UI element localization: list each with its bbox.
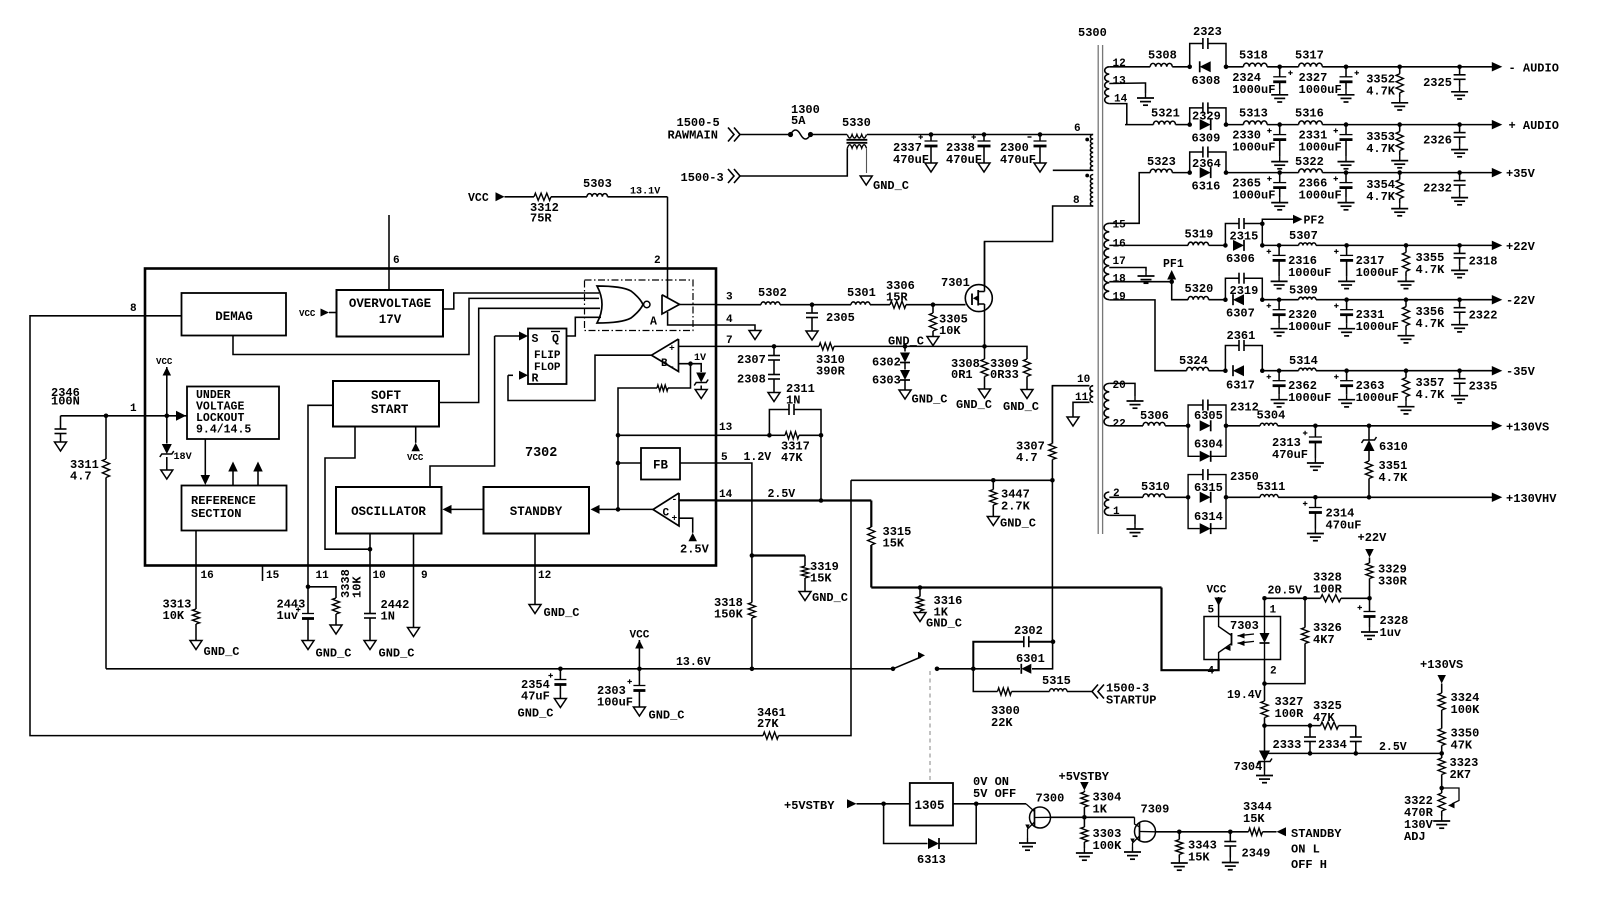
resistor 3357 4.7K <box>1398 371 1446 414</box>
earth 3322 <box>1433 816 1450 828</box>
winding 15-19 <box>1104 223 1109 299</box>
svg-text:1000uF: 1000uF <box>1299 83 1342 97</box>
capacitor 2362 1000uF <box>1267 371 1332 407</box>
wire 5314 out <box>1316 368 1493 373</box>
svg-text:FLIP: FLIP <box>534 350 561 362</box>
wire to 5313 <box>1226 124 1243 126</box>
svg-text:1uv: 1uv <box>277 609 299 623</box>
wire 6301 branch <box>973 668 1020 670</box>
capacitor 2331 1000uF <box>1299 125 1355 169</box>
wire pin14 out <box>716 498 871 503</box>
inductor 5303 <box>583 177 612 197</box>
inductor 5311 <box>1257 480 1286 497</box>
winding 12-13-14 <box>1105 67 1110 104</box>
pin 19 label sec <box>1113 292 1126 304</box>
svg-text:47uF: 47uF <box>521 690 550 704</box>
svg-text:1000uF: 1000uF <box>1356 266 1399 280</box>
svg-text:7300: 7300 <box>1036 792 1065 806</box>
svg-text:2K7: 2K7 <box>1450 768 1472 782</box>
svg-text:15R: 15R <box>886 291 908 305</box>
svg-text:1000uF: 1000uF <box>1232 141 1275 155</box>
diode 6315 <box>1194 481 1223 503</box>
resistor 3307 4.7 <box>1016 386 1056 481</box>
inductor 5321 <box>1151 107 1180 125</box>
wire aux bottom <box>1073 402 1090 417</box>
svg-text:20.5V: 20.5V <box>1268 585 1303 598</box>
svg-text:-35V: -35V <box>1506 365 1536 379</box>
svg-text:PF2: PF2 <box>1304 215 1325 228</box>
wire mains rail <box>867 134 1093 136</box>
svg-text:GND_C: GND_C <box>649 709 685 723</box>
svg-text:5320: 5320 <box>1185 282 1214 296</box>
svg-text:100R: 100R <box>1313 583 1343 597</box>
ground GND_C 3305 <box>888 335 939 349</box>
capacitor 2308 <box>737 360 780 393</box>
capacitor 2361 <box>1225 329 1262 371</box>
feedback resistor B <box>618 364 691 510</box>
wire aux top <box>1052 386 1089 444</box>
wire STANDBY to OSCILLATOR <box>443 505 484 514</box>
wire pin16 rail <box>1109 244 1188 246</box>
resistor 3324 100K <box>1438 691 1480 729</box>
capacitor 2349 <box>1224 832 1270 861</box>
svg-text:+5VSTBY: +5VSTBY <box>784 799 835 813</box>
rail PF2 <box>1293 215 1324 228</box>
resistor 3329 330R <box>1366 563 1408 599</box>
svg-text:5306: 5306 <box>1140 409 1169 423</box>
capacitor 2327 1000uF <box>1299 67 1360 102</box>
svg-text:1N: 1N <box>381 610 395 624</box>
wire pin9 <box>413 534 415 628</box>
ground GND_C 6303 <box>899 390 948 407</box>
svg-text:27K: 27K <box>757 717 779 731</box>
diode 6305 <box>1194 409 1223 431</box>
svg-text:1000uF: 1000uF <box>1356 320 1399 334</box>
resistor 3309 0R33 <box>990 357 1031 390</box>
VCC clamp symbol <box>156 356 173 444</box>
rail -22V <box>1492 294 1536 308</box>
wire 3300 to 5315 <box>1012 691 1050 693</box>
capacitor 2324 1000uF <box>1232 67 1293 102</box>
ground GND_C pin12 <box>529 605 580 621</box>
svg-text:2312: 2312 <box>1230 401 1259 415</box>
capacitor 2319 <box>1225 273 1262 300</box>
rail +130VS <box>1492 420 1549 434</box>
inductor 5323 <box>1147 155 1176 173</box>
node 2300 <box>1038 132 1043 137</box>
ground arrow pin9 <box>408 628 420 637</box>
svg-text:6307: 6307 <box>1226 307 1255 321</box>
svg-text:R: R <box>532 373 539 386</box>
capacitor 2322 <box>1451 300 1497 332</box>
svg-text:47K: 47K <box>1313 711 1335 725</box>
wire 5315 to startup conn <box>1067 691 1092 693</box>
wire 1305 out <box>953 802 1026 807</box>
capacitor 2307 <box>737 346 780 367</box>
svg-text:DEMAG: DEMAG <box>215 310 252 324</box>
input +5VSTBY <box>784 799 857 813</box>
wire choke to GND_C <box>866 148 868 173</box>
svg-text:7309: 7309 <box>1141 803 1170 817</box>
inductor 5316 <box>1295 107 1324 125</box>
svg-text:5323: 5323 <box>1147 155 1176 169</box>
svg-text:100N: 100N <box>51 395 80 409</box>
resistor 3355 4.7K <box>1398 245 1446 288</box>
svg-text:12: 12 <box>538 570 551 582</box>
svg-text:OSCILLATOR: OSCILLATOR <box>351 505 426 519</box>
winding 20-22 <box>1104 383 1109 425</box>
ground below 2338 <box>978 163 990 172</box>
potentiometer 3322 470R <box>1404 788 1459 844</box>
ground GND_C 2443 <box>302 641 352 661</box>
wire 13.6V line <box>106 656 893 669</box>
svg-text:FB: FB <box>653 459 668 473</box>
NOR gate <box>597 286 650 323</box>
block FB <box>641 448 680 480</box>
svg-text:1V: 1V <box>694 353 707 364</box>
svg-text:1: 1 <box>1270 605 1277 617</box>
diode 6301 <box>1016 652 1045 674</box>
wire pin4 <box>716 325 755 331</box>
wire pin13 to earth <box>1109 83 1145 93</box>
svg-text:1: 1 <box>130 403 137 415</box>
svg-text:5319: 5319 <box>1185 228 1214 242</box>
block REFERENCE SECTION <box>182 486 287 531</box>
transformer 5300 label <box>1078 26 1107 40</box>
svg-text:13: 13 <box>1113 76 1127 88</box>
transistor 7309 <box>1130 803 1169 848</box>
svg-text:VCC: VCC <box>468 192 489 205</box>
pin 5 label <box>721 451 771 464</box>
inductor 5318 <box>1239 49 1268 67</box>
wire primary tap <box>1053 169 1093 171</box>
op-amp C <box>653 493 679 526</box>
pin 10 label aux <box>1077 374 1090 386</box>
capacitor 2334 <box>1318 726 1362 756</box>
filter choke 5330 <box>842 116 871 148</box>
wire MOSFET source <box>984 304 986 346</box>
svg-text:5: 5 <box>721 452 728 464</box>
svg-text:1K: 1K <box>1093 803 1108 817</box>
svg-text:14: 14 <box>719 489 733 501</box>
svg-text:- AUDIO: - AUDIO <box>1509 61 1559 75</box>
wire 3306 to gate <box>906 302 966 307</box>
wire 3310 to source <box>834 344 987 349</box>
svg-text:5300: 5300 <box>1078 26 1107 40</box>
earth 7309 <box>1124 847 1141 859</box>
ground GND_C 3308 <box>956 389 992 412</box>
wire fuse to 5330 <box>811 134 848 136</box>
resistor 3308 0R1 <box>951 346 988 389</box>
wire to 5307 <box>1262 243 1298 248</box>
capacitor 2318 <box>1451 245 1497 277</box>
wire 5318 to 5317 <box>1267 65 1299 70</box>
svg-text:2349: 2349 <box>1242 847 1271 861</box>
pin 1 label <box>130 403 137 415</box>
transistor 7300 <box>1025 792 1064 839</box>
svg-text:1000uF: 1000uF <box>1232 83 1275 97</box>
resistor 3313 10K <box>163 598 200 641</box>
wire to 2365 <box>1226 170 1299 175</box>
wire pin13 inside <box>618 434 716 436</box>
svg-text:Q: Q <box>552 333 559 346</box>
ground GND_C 2303 <box>633 707 684 723</box>
svg-text:4.7K: 4.7K <box>1416 317 1446 331</box>
earth pin13 <box>1137 93 1154 105</box>
svg-text:470uF: 470uF <box>1272 448 1308 462</box>
svg-text:6305: 6305 <box>1194 409 1223 423</box>
inductor 5320 <box>1185 282 1214 300</box>
wire DEMAG out to NOR <box>233 298 599 354</box>
wire 5316 out <box>1322 122 1492 127</box>
pin 22 label <box>1113 419 1126 431</box>
svg-text:1000uF: 1000uF <box>1299 141 1342 155</box>
capacitor 2315 <box>1225 218 1262 245</box>
svg-text:6309: 6309 <box>1192 132 1221 146</box>
diode 6313 bypass <box>884 804 977 867</box>
wire 5317 out <box>1322 65 1492 70</box>
resistor 3310 390R <box>816 343 846 379</box>
svg-text:5308: 5308 <box>1148 49 1177 63</box>
wire 3312 to 5303 <box>551 196 587 198</box>
dashed box gate A <box>585 280 694 331</box>
svg-text:13.1V: 13.1V <box>630 187 661 198</box>
wire 5308 out <box>1172 65 1228 70</box>
svg-text:4: 4 <box>726 314 733 326</box>
svg-text:GND_C: GND_C <box>912 393 948 407</box>
svg-text:15: 15 <box>266 570 280 582</box>
wire B plus pin7 <box>679 345 717 347</box>
resistor 3356 4.7K <box>1398 300 1446 343</box>
svg-text:5309: 5309 <box>1289 284 1318 298</box>
inductor 5304 <box>1257 409 1286 426</box>
wire SOFT START out to NOR <box>439 308 600 402</box>
transformer core <box>1098 45 1102 534</box>
svg-text:330R: 330R <box>1378 575 1408 589</box>
svg-text:B: B <box>661 358 668 370</box>
svg-text:SOFT: SOFT <box>371 389 401 403</box>
wire VCC at SOFT START <box>407 427 424 464</box>
wire to 1305 <box>857 802 910 807</box>
svg-text:+ AUDIO: + AUDIO <box>1509 119 1559 133</box>
svg-text:1000uF: 1000uF <box>1288 266 1331 280</box>
svg-text:10K: 10K <box>939 324 961 338</box>
resistor 3319 15K <box>801 556 838 592</box>
svg-text:5316: 5316 <box>1295 107 1324 121</box>
svg-text:STANDBY: STANDBY <box>1291 827 1342 841</box>
node 2354 <box>558 667 563 672</box>
diode 6317 <box>1226 365 1255 392</box>
svg-text:+: + <box>672 513 678 524</box>
capacitor 2303 100uF <box>597 669 645 710</box>
svg-text:47K: 47K <box>1451 739 1473 753</box>
svg-text:13.6V: 13.6V <box>676 656 711 669</box>
wire switch to startup node <box>937 667 976 672</box>
capacitor 2350 <box>1188 469 1259 497</box>
rail - AUDIO <box>1492 61 1559 75</box>
resistor 3303 100K <box>1081 817 1122 853</box>
capacitor 2320 1000uF <box>1267 300 1332 336</box>
wire R input of FF <box>508 355 652 400</box>
svg-text:START: START <box>371 403 409 417</box>
ground below 2300 <box>1034 163 1046 172</box>
resistor 3461 27K <box>757 706 786 739</box>
pin 14 label <box>719 488 795 501</box>
pin 15 label <box>266 570 280 582</box>
resistor 3318 150K <box>714 556 756 672</box>
svg-text:100K: 100K <box>1451 703 1481 717</box>
wire pin8 DEMAG net <box>30 316 763 736</box>
capacitor 2330 1000uF <box>1232 125 1288 169</box>
pin 3 label <box>726 292 733 304</box>
svg-text:7302: 7302 <box>525 446 557 461</box>
wire 5313 to 5316 <box>1267 122 1299 127</box>
wire pin12 <box>534 534 536 605</box>
ground GND_C pin16 <box>190 641 240 660</box>
svg-text:2323: 2323 <box>1193 25 1222 39</box>
optocoupler VCC <box>1207 585 1227 617</box>
wire B minus node <box>679 361 702 372</box>
earth 3303 <box>1076 848 1093 860</box>
svg-text:1: 1 <box>1113 506 1120 518</box>
switch contact <box>891 652 940 671</box>
wire C plus 2.5V <box>679 518 693 533</box>
svg-text:8: 8 <box>1073 195 1080 207</box>
capacitor 2317 1000uF <box>1334 245 1399 288</box>
svg-text:SECTION: SECTION <box>191 507 241 521</box>
resistor 3306 15R <box>886 279 915 308</box>
resistor 3305 10K <box>929 305 967 338</box>
wire FB box <box>618 462 716 464</box>
pin 7 label <box>726 335 733 347</box>
svg-text:10: 10 <box>1077 374 1090 386</box>
zener 1V at B <box>694 353 708 386</box>
svg-text:VCC: VCC <box>156 356 173 367</box>
capacitor 2443 1uv <box>277 587 315 641</box>
svg-text:0R1: 0R1 <box>951 368 973 382</box>
svg-text:4.7K: 4.7K <box>1366 142 1396 156</box>
rail +130VS source <box>1420 658 1463 693</box>
capacitor 2364 <box>1190 147 1226 173</box>
wire pin3 <box>716 304 761 306</box>
wire C out to STANDBY <box>591 505 654 514</box>
ground GND_C 3319 <box>799 591 848 605</box>
svg-text:6306: 6306 <box>1226 252 1255 266</box>
svg-text:S: S <box>532 333 539 346</box>
resistor 3311 4.7 <box>70 416 110 669</box>
svg-text:6: 6 <box>393 255 400 267</box>
wire to 5318 <box>1226 66 1243 68</box>
wire OVERVOLTAGE out to NOR <box>443 293 599 309</box>
wire 2.5V line <box>1265 741 1442 754</box>
wire startup <box>973 669 997 692</box>
ground below 2337 <box>925 163 937 172</box>
wire 5301-3306 <box>870 304 890 306</box>
wire SOFT START loop <box>325 427 370 550</box>
svg-text:100R: 100R <box>1275 707 1305 721</box>
svg-text:2350: 2350 <box>1230 470 1259 484</box>
inductor 5314 <box>1289 354 1318 371</box>
wire 7309 out <box>1156 830 1249 835</box>
inductor 5308 <box>1148 49 1177 67</box>
pin 11 label aux <box>1075 392 1089 404</box>
wire C minus pin14 <box>679 499 716 501</box>
svg-text:6310: 6310 <box>1379 440 1408 454</box>
svg-text:6302: 6302 <box>872 356 901 370</box>
inductor 5309 <box>1289 284 1318 300</box>
node VCC 2303 <box>637 667 642 672</box>
svg-text:6314: 6314 <box>1194 510 1223 524</box>
svg-text:6: 6 <box>1074 123 1081 135</box>
node 3317-2311 <box>819 433 824 438</box>
inductor 5306 <box>1140 409 1169 426</box>
inductor 5307 <box>1289 229 1318 245</box>
wire 5310 out <box>1165 495 1228 500</box>
winding 2-1 <box>1104 492 1109 515</box>
svg-text:1000uF: 1000uF <box>1288 320 1331 334</box>
capacitor 2314 470uF <box>1303 497 1362 540</box>
svg-text:10: 10 <box>373 570 386 582</box>
earth 2349 <box>1222 858 1239 870</box>
capacitor 2328 1uv <box>1358 598 1409 640</box>
primary winding 6-8 <box>1085 135 1093 207</box>
svg-text:VCC: VCC <box>1207 585 1227 597</box>
ground GND_C 3316 <box>914 613 962 631</box>
VCC source 13.1V line <box>468 192 534 205</box>
resistor 3352 4.7K <box>1366 67 1408 110</box>
label 20.5V <box>1268 585 1303 598</box>
wire pin13 out <box>716 433 772 438</box>
wire pin15 rail riser <box>1109 173 1150 224</box>
relay 1305 <box>910 783 953 826</box>
VCC symbol at OVERVOLTAGE <box>299 308 337 319</box>
input 1500-5 RAWMAIN <box>668 116 741 143</box>
resistor 3317 47K <box>769 432 821 465</box>
capacitor 2232 <box>1423 173 1468 205</box>
wire to 5309 <box>1262 297 1298 302</box>
inductor 5302 <box>758 286 787 305</box>
ground arrow 3338 <box>330 625 342 634</box>
svg-text:GND_C: GND_C <box>1003 400 1039 414</box>
svg-text:C: C <box>663 508 670 520</box>
svg-text:100uF: 100uF <box>597 696 633 710</box>
svg-text:GND_C: GND_C <box>316 647 352 661</box>
IC 7302 outline <box>145 269 716 566</box>
resistor 3304 1K <box>1081 791 1122 818</box>
capacitor 2337 470uF <box>893 135 938 168</box>
svg-text:2333: 2333 <box>1273 738 1302 752</box>
earth 3343 <box>1171 858 1188 870</box>
svg-text:6304: 6304 <box>1194 438 1223 452</box>
capacitor 2442 1N <box>364 598 409 641</box>
block UNDER VOLTAGE LOCKOUT <box>187 387 279 440</box>
dashed link to relay 1305 <box>929 671 931 782</box>
resistor 3351 4.7K <box>1365 451 1408 497</box>
svg-text:15K: 15K <box>810 572 832 586</box>
rail -35V <box>1492 365 1536 379</box>
wire 5321 out <box>1176 122 1229 127</box>
pin 17 label sec <box>1113 256 1126 268</box>
wire demag sense <box>851 478 1055 483</box>
svg-text:15: 15 <box>1113 220 1127 232</box>
capacitor 2305 <box>806 305 855 331</box>
svg-text:1N: 1N <box>786 394 800 408</box>
svg-text:22: 22 <box>1113 419 1126 431</box>
svg-text:7304: 7304 <box>1234 760 1263 774</box>
svg-text:2.7K: 2.7K <box>1001 500 1031 514</box>
svg-text:5317: 5317 <box>1295 49 1324 63</box>
block FLIP FLOP <box>528 329 567 386</box>
